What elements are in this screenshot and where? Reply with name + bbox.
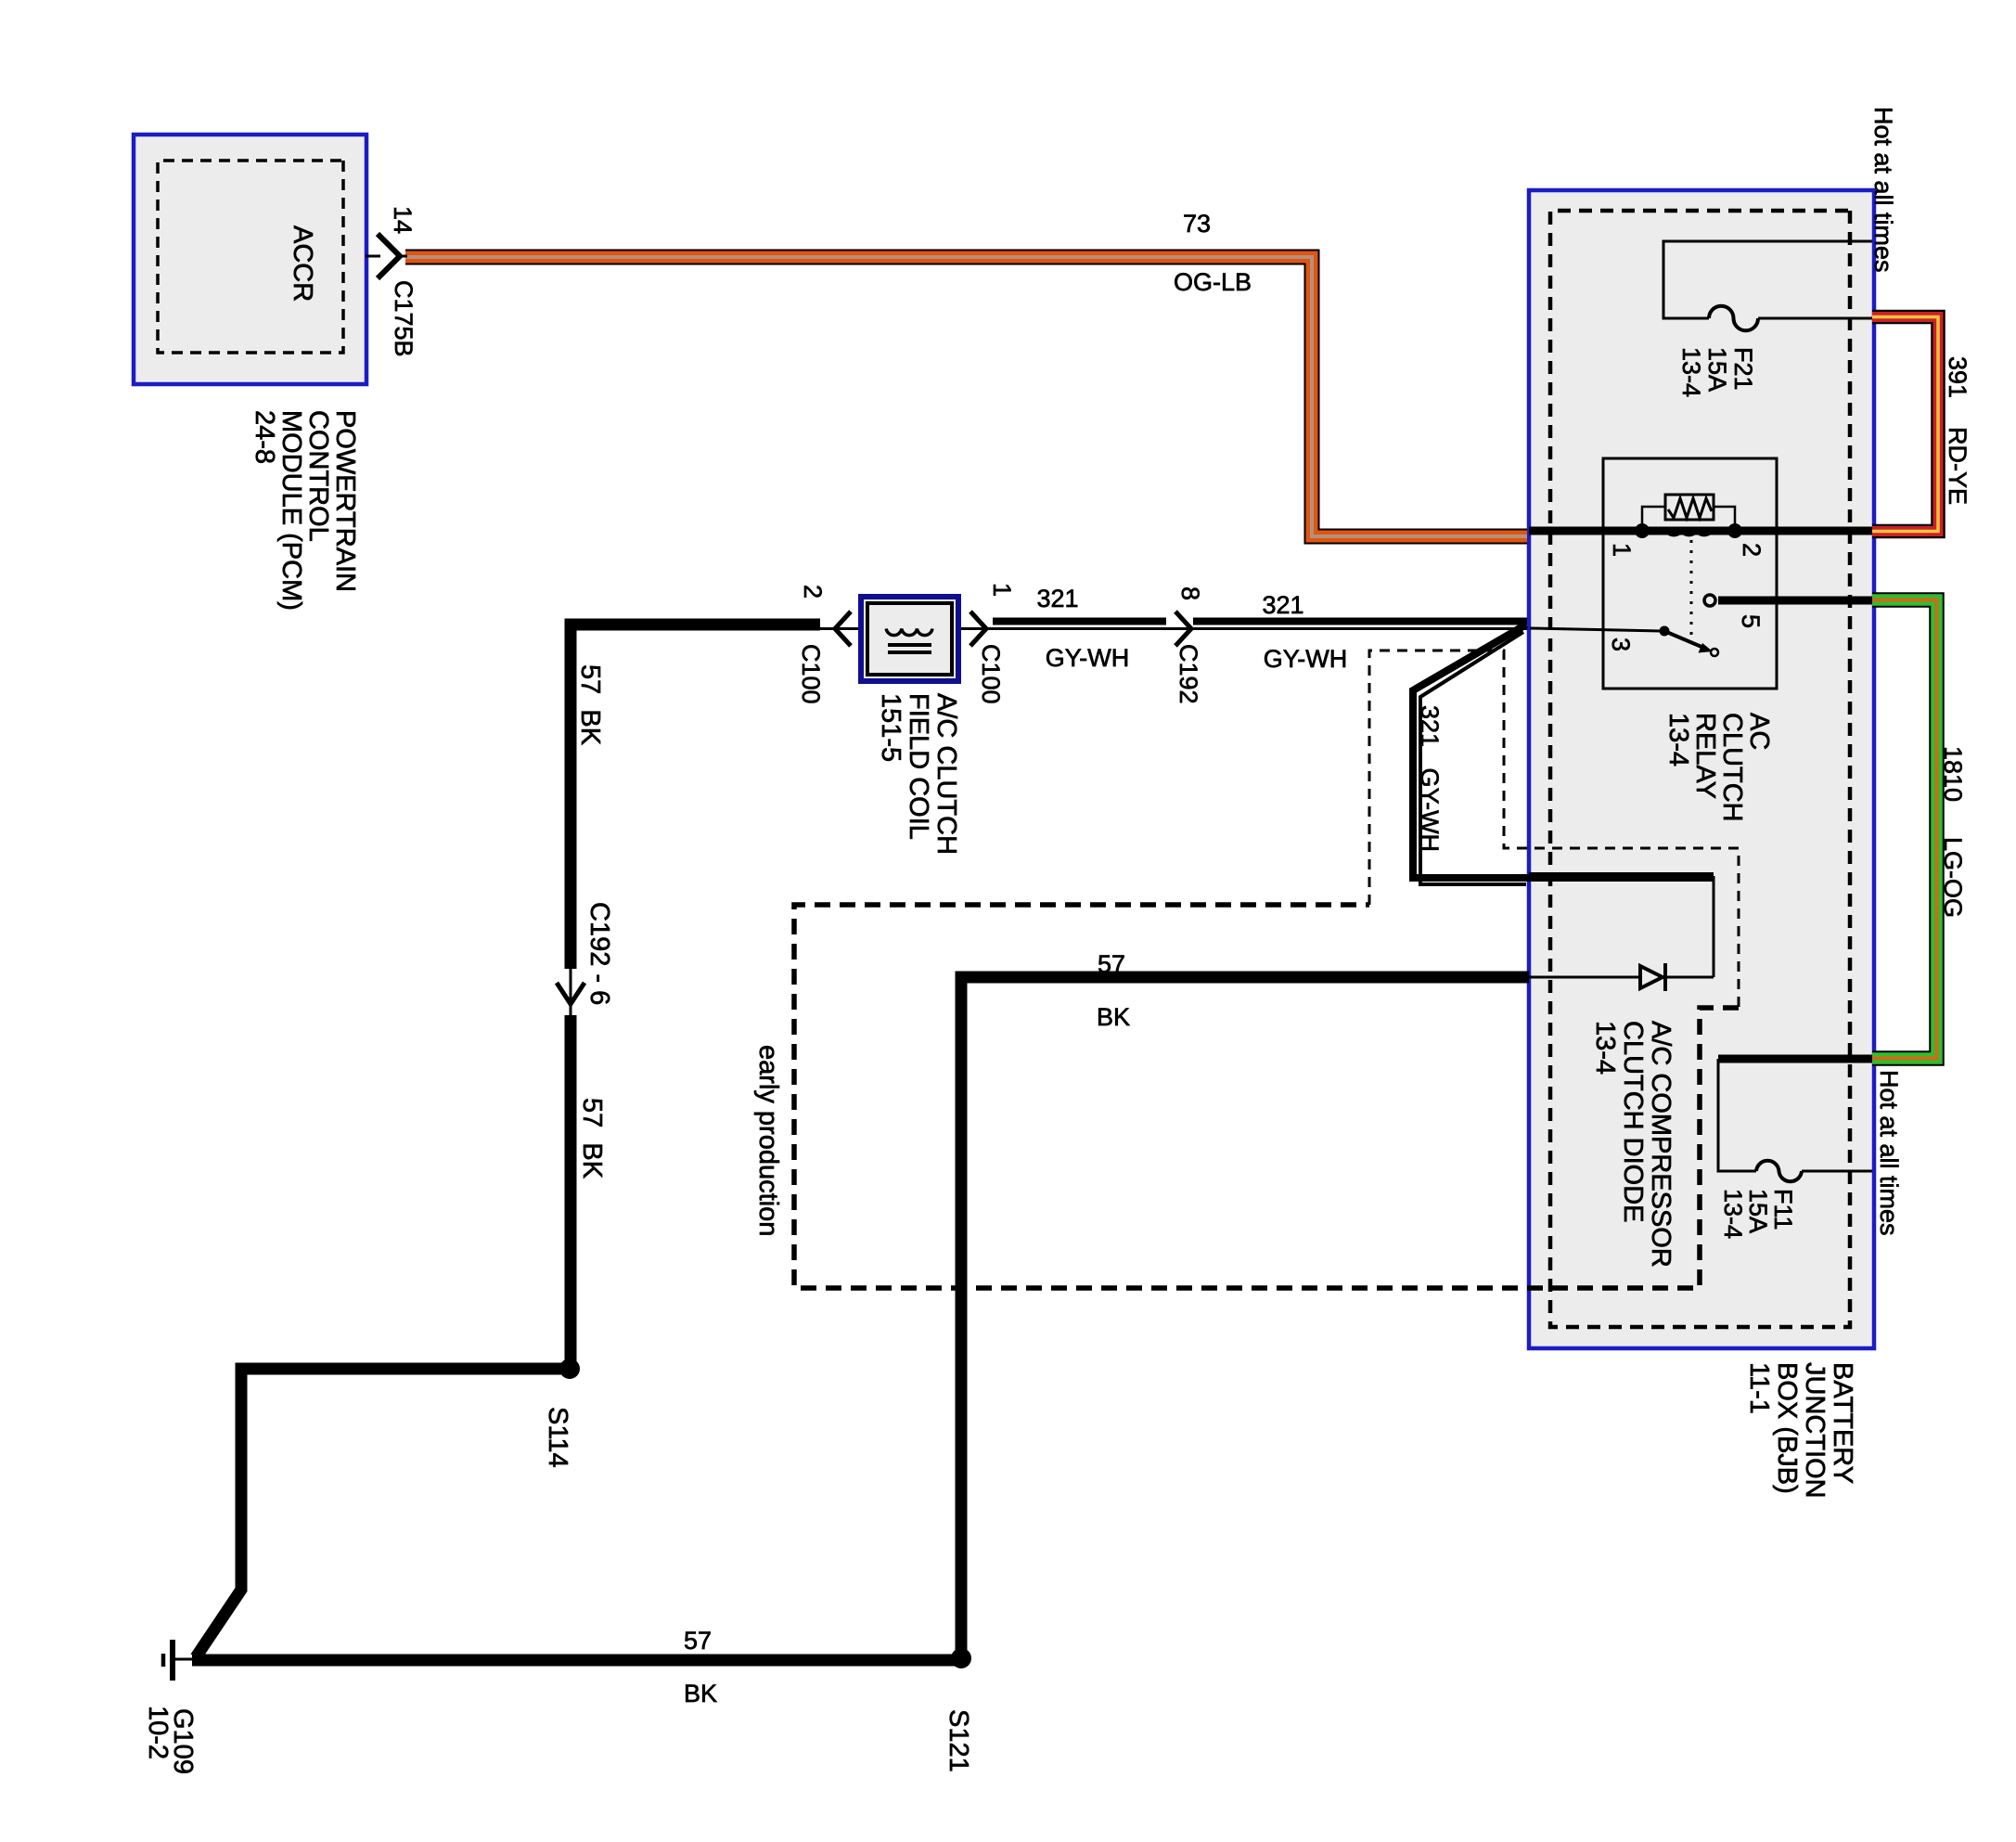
BJB inner dashed border	[1550, 211, 1850, 1327]
svg-text:2: 2	[1738, 543, 1766, 557]
svg-text:JUNCTION: JUNCTION	[1800, 1362, 1830, 1499]
svg-text:early production: early production	[753, 1045, 783, 1236]
fuse F21 15A 13-4	[1663, 241, 1872, 397]
svg-text:BK: BK	[1097, 1003, 1130, 1031]
wire 57 BK: BJB diode to S121	[961, 950, 1529, 1656]
svg-text:57: 57	[1098, 950, 1125, 978]
svg-text:CLUTCH DIODE: CLUTCH DIODE	[1618, 1021, 1648, 1223]
svg-text:13-4: 13-4	[1590, 1021, 1620, 1075]
svg-text:GY-WH: GY-WH	[1264, 645, 1348, 673]
svg-text:24-8: 24-8	[250, 410, 279, 464]
svg-text:57 BK: 57 BK	[575, 664, 605, 746]
splice S114	[543, 1359, 580, 1468]
wire orange 73 OG-LB from PCM to BJB	[405, 210, 1527, 536]
svg-text:C175B: C175B	[390, 280, 417, 357]
svg-text:2: 2	[799, 585, 827, 599]
svg-text:S114: S114	[543, 1407, 572, 1468]
svg-text:LG-OG: LG-OG	[1939, 837, 1967, 918]
wire 321 GY-WH detour (double line)	[1413, 625, 1714, 884]
connector C100 pin 1 arrow	[970, 583, 1016, 704]
connector C192-6	[557, 902, 614, 1015]
wire 391 RD-YE (red/yellow loop)	[1872, 317, 1971, 532]
svg-text:BOX (BJB): BOX (BJB)	[1772, 1362, 1802, 1494]
A/C compressor clutch diode	[1527, 876, 1714, 1268]
svg-text:C192 - 6: C192 - 6	[584, 902, 614, 1005]
svg-text:57: 57	[684, 1627, 712, 1655]
main 321 GY-WH wire: thin continuous line	[572, 627, 1527, 630]
wire 57 BK from field coil down-left	[571, 625, 820, 969]
svg-text:Hot at all times: Hot at all times	[1869, 107, 1897, 273]
svg-text:321: 321	[1036, 585, 1078, 612]
svg-text:13-4: 13-4	[1663, 713, 1693, 766]
connector C175B pin 14	[366, 206, 417, 357]
svg-text:151-5: 151-5	[876, 693, 905, 762]
relay coil	[1642, 495, 1735, 642]
svg-text:BK: BK	[684, 1680, 717, 1707]
svg-text:57 BK: 57 BK	[577, 1098, 607, 1179]
node pin1 junction	[1635, 523, 1650, 538]
svg-text:ACCR: ACCR	[288, 225, 317, 302]
svg-text:73: 73	[1183, 210, 1211, 238]
svg-text:8: 8	[1176, 586, 1204, 600]
svg-text:Hot at all times: Hot at all times	[1875, 1070, 1903, 1236]
svg-text:CONTROL: CONTROL	[303, 410, 333, 542]
powertrain control module PCM box	[134, 135, 366, 611]
battery junction box BJB	[1529, 190, 1874, 1348]
svg-text:MODULE (PCM): MODULE (PCM)	[276, 410, 306, 611]
wire S114 to ground	[196, 1369, 570, 1657]
ground G109	[143, 1640, 198, 1774]
svg-text:1810: 1810	[1939, 746, 1967, 802]
svg-text:321: 321	[1262, 591, 1303, 619]
wire S121 to ground	[192, 1627, 961, 1707]
relay through wire (vertical)	[1529, 527, 1872, 535]
svg-text:CLUTCH: CLUTCH	[1717, 713, 1747, 822]
svg-text:14: 14	[389, 206, 417, 234]
svg-text:15A: 15A	[1744, 1189, 1772, 1233]
svg-text:A/C COMPRESSOR: A/C COMPRESSOR	[1646, 1021, 1676, 1268]
svg-text:1: 1	[1608, 543, 1636, 557]
wire 57 BK to S114	[571, 1015, 607, 1364]
wire 1810 LG-OG (green/orange loop)	[1872, 600, 1967, 1059]
svg-text:BATTERY: BATTERY	[1828, 1362, 1857, 1484]
relay switch arm (pin 3)	[1530, 626, 1718, 657]
svg-text:F21: F21	[1729, 347, 1757, 391]
svg-text:C100: C100	[977, 644, 1005, 704]
node pin2 junction	[1727, 523, 1742, 538]
svg-text:F11: F11	[1769, 1189, 1797, 1230]
svg-text:A/C CLUTCH: A/C CLUTCH	[931, 693, 961, 855]
svg-text:C192: C192	[1175, 644, 1202, 704]
A/C clutch field coil box	[861, 597, 961, 855]
relay pin 5 contact and wire	[1704, 595, 1872, 606]
dashed box early production (heavy part)	[794, 905, 1739, 1288]
svg-text:321 GY-WH: 321 GY-WH	[1416, 705, 1444, 852]
main 321 GY-WH wire: thick companion (BJB to C192)	[1193, 618, 1527, 625]
svg-text:AC: AC	[1744, 713, 1774, 750]
AC clutch relay box	[1603, 458, 1777, 822]
svg-text:C100: C100	[797, 644, 825, 704]
svg-text:OG-LB: OG-LB	[1174, 268, 1252, 296]
svg-text:5: 5	[1737, 614, 1765, 628]
svg-text:391: 391	[1944, 356, 1971, 398]
dashed box detour (thin part)	[1369, 650, 1739, 1008]
svg-text:FIELD COIL: FIELD COIL	[904, 693, 933, 840]
splice S121	[944, 1648, 973, 1772]
svg-text:11-1: 11-1	[1744, 1362, 1774, 1414]
svg-text:GY-WH: GY-WH	[1046, 644, 1130, 672]
svg-text:S121: S121	[944, 1709, 973, 1772]
svg-text:POWERTRAIN: POWERTRAIN	[330, 410, 360, 592]
svg-text:3: 3	[1607, 638, 1635, 651]
label battery junction box	[1744, 1362, 1857, 1499]
svg-text:1: 1	[988, 583, 1016, 597]
svg-text:10-2: 10-2	[143, 1706, 173, 1759]
connector C100 pin 2 arrow	[797, 585, 851, 704]
fuse F11 15A 13-4	[1718, 1059, 1872, 1239]
svg-text:13-4: 13-4	[1677, 347, 1705, 397]
svg-text:15A: 15A	[1703, 347, 1731, 392]
svg-text:13-4: 13-4	[1719, 1189, 1747, 1239]
svg-text:RD-YE: RD-YE	[1944, 427, 1971, 505]
connector C192 arrow	[1175, 586, 1204, 704]
main 321 GY-WH wire: thick companion (C192 to C100)	[993, 618, 1166, 625]
svg-text:RELAY: RELAY	[1690, 713, 1720, 799]
